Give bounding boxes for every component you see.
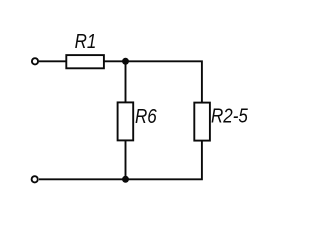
terminal top-left [32,58,38,64]
resistor R6 [118,102,134,140]
svg-text:R1: R1 [75,29,97,52]
wire: node A to top-right corner [126,61,202,103]
terminal bottom-left [32,176,38,182]
wire: node B to bottom-left terminal [39,178,126,180]
wire: R2-5 to bottom-right corner [126,140,202,179]
wire: top-left terminal to R1 [39,60,67,62]
wire: node A down to R6 [125,61,127,103]
wire: R6 to node B [125,140,127,179]
svg-text:R6: R6 [135,105,157,128]
node A junction dot [122,58,129,65]
node B junction dot [122,176,129,183]
svg-text:R2-5: R2-5 [211,104,248,127]
wire: R1 to node A [104,60,125,62]
resistor R2-5 [194,103,210,141]
resistor R1 [66,55,104,68]
